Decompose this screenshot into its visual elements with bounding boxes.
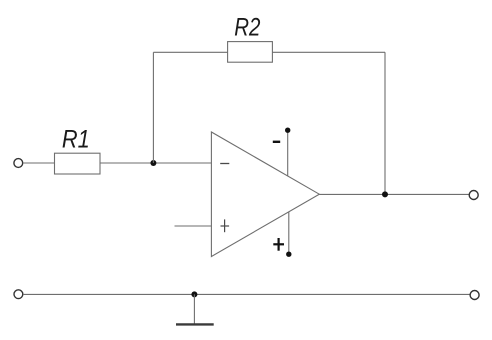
- wire: feedback vertical right down to output: [384, 52, 386, 194]
- input terminal (left, open circle): [14, 159, 23, 168]
- label R2: [234, 13, 260, 41]
- node: ground junction dot: [191, 291, 197, 297]
- bottom rail terminal right (open circle): [470, 291, 479, 300]
- ground: [176, 323, 214, 325]
- label - (negative supply): [273, 141, 280, 143]
- op-amp non-inverting input plus mark: [221, 219, 230, 232]
- wire: feedback top left to R2: [153, 51, 227, 53]
- wire: input terminal to R1: [23, 162, 55, 164]
- label + (positive supply): [273, 238, 284, 251]
- svg-text:R2: R2: [234, 13, 260, 41]
- bottom rail terminal left (open circle): [14, 290, 23, 299]
- node: output feedback junction dot: [382, 191, 388, 197]
- wire: feedback vertical left: [152, 52, 154, 163]
- svg-text:R1: R1: [62, 125, 90, 153]
- wire: negative supply pin (bottom): [288, 212, 290, 254]
- resistor R2: [228, 42, 273, 63]
- node: feedback junction dot: [150, 160, 156, 166]
- output terminal (right, open circle): [469, 191, 478, 200]
- op-amp U1 triangle: [211, 132, 319, 257]
- wire: R2 to right vertical: [272, 51, 385, 53]
- resistor R1: [55, 153, 101, 174]
- wire: ground stem: [193, 294, 195, 323]
- label R1: [62, 125, 90, 153]
- node: top supply pin dot: [285, 128, 290, 133]
- wire: non-inverting input stub: [175, 225, 212, 227]
- wire: R1 to op-amp inverting input: [100, 162, 211, 164]
- wire: positive supply pin (top): [287, 130, 289, 176]
- op-amp inverting input minus mark: [220, 163, 229, 165]
- node: bottom supply pin dot: [286, 252, 291, 257]
- wire: bottom rail: [23, 293, 470, 295]
- wire: op-amp output to output terminal: [319, 193, 469, 195]
